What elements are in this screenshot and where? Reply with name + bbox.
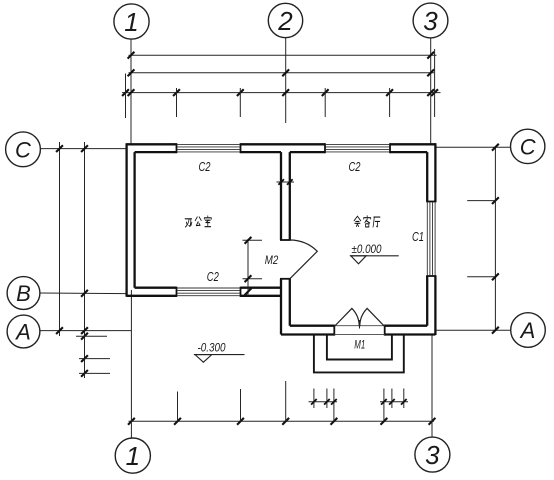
- wall interior thickness dimension: [277, 179, 295, 185]
- wall right outer line: [434, 143, 436, 335]
- label C1: [412, 230, 424, 244]
- grid circle C right: [511, 129, 545, 163]
- top extension line window edge d: [389, 88, 391, 117]
- grid line B left: [40, 292, 127, 295]
- door M1 jamb caps: [334, 325, 384, 336]
- left stub step1: [79, 358, 110, 360]
- wall top window caps: [177, 143, 391, 153]
- porch inner step: [327, 335, 392, 360]
- room label office (ban gong shi): [185, 216, 211, 227]
- left stub step2: [79, 372, 110, 374]
- top extension line left wall face: [125, 74, 127, 119]
- grid line 3 upper leader: [430, 38, 432, 144]
- elevation marker +0.000: [350, 244, 399, 264]
- grid line A left: [40, 330, 131, 332]
- label M1: [354, 337, 365, 351]
- grid circle B left: [7, 277, 40, 310]
- wall bottom-left outer line: [127, 295, 281, 297]
- top dimension line grids: [128, 69, 435, 76]
- grid circle 2 top: [268, 3, 302, 37]
- svg-text:3: 3: [423, 6, 438, 36]
- grid line 3 lower leader: [431, 335, 433, 437]
- svg-text:A: A: [519, 318, 536, 343]
- bottom extension grid 2: [285, 381, 287, 421]
- svg-text:2: 2: [277, 6, 293, 36]
- window C1 hatch: [427, 202, 435, 276]
- grid circle A right: [511, 313, 546, 348]
- window C2 top left hatch: [177, 144, 240, 152]
- svg-text:C2: C2: [199, 160, 211, 174]
- svg-text:1: 1: [124, 7, 138, 37]
- door M2 dimension line: [243, 237, 263, 295]
- wall interior left line: [280, 152, 282, 334]
- door M2 jamb caps: [280, 240, 291, 279]
- grid circle 3 bottom: [415, 437, 450, 472]
- window C2 top right hatch: [326, 144, 390, 152]
- door M2 leaf and swing: [290, 240, 318, 279]
- left dimension line outer: [56, 142, 63, 336]
- grid line 1 upper leader: [130, 39, 132, 143]
- wall right inner line: [426, 152, 428, 326]
- wall interior right line: [289, 152, 291, 326]
- svg-text:C: C: [520, 134, 536, 159]
- svg-text:3: 3: [425, 440, 440, 470]
- label M2: [265, 253, 279, 267]
- svg-text:A: A: [14, 320, 31, 345]
- label C2 bottom: [207, 270, 219, 284]
- wall bottom-left window caps: [177, 287, 241, 297]
- svg-text:C2: C2: [207, 270, 219, 284]
- bottom extension window edge a: [177, 392, 179, 422]
- elevation marker -0.300: [194, 343, 245, 363]
- door M1 left leaf: [334, 308, 359, 326]
- grid circle 1 bottom: [115, 438, 150, 473]
- svg-text:1: 1: [126, 441, 140, 471]
- top dimension line overall: [128, 52, 437, 59]
- grid line A right: [436, 329, 511, 331]
- top extension line window edge a: [176, 88, 178, 117]
- wall left outer line: [125, 143, 127, 297]
- svg-text:C: C: [15, 137, 31, 162]
- left stub wall face: [76, 335, 107, 337]
- right dimension line: [492, 144, 499, 334]
- svg-text:C1: C1: [412, 230, 424, 244]
- grid line C left: [40, 148, 126, 150]
- wall bottom-left inner line: [135, 287, 281, 289]
- top dimension line openings: [122, 89, 441, 96]
- porch outer step: [314, 335, 404, 373]
- step dimension group right: [380, 389, 408, 422]
- svg-text:C2: C2: [349, 160, 361, 174]
- svg-text:-0.300: -0.300: [198, 343, 227, 355]
- door M1 threshold: [334, 325, 384, 327]
- svg-text:±0.000: ±0.000: [352, 244, 383, 256]
- svg-text:M1: M1: [354, 337, 365, 351]
- wall top outer line: [127, 143, 436, 145]
- svg-text:B: B: [16, 281, 31, 306]
- step dimension group left: [309, 389, 338, 422]
- grid line 2 leader: [285, 38, 287, 123]
- wall right window caps: [426, 202, 436, 277]
- right stub window top: [467, 200, 495, 202]
- grid circle C left: [6, 132, 41, 167]
- left dimension line inner: [81, 142, 88, 378]
- grid line C right: [435, 146, 511, 148]
- top extension line window edge b: [239, 88, 241, 117]
- svg-text:M2: M2: [265, 253, 279, 267]
- wall bottom-right inner line: [290, 325, 427, 327]
- wall top inner line: [135, 151, 428, 153]
- grid circle 3 top: [413, 3, 448, 38]
- door M1 right leaf: [360, 308, 385, 326]
- wall bottom-right outer line: [281, 333, 435, 335]
- label C2 top right: [349, 160, 361, 174]
- right stub window bottom: [467, 276, 495, 278]
- grid line 1 lower leader: [130, 290, 132, 438]
- bottom dimension line: [128, 418, 435, 425]
- label C2 top left: [199, 160, 211, 174]
- window C2 bottom hatch: [177, 288, 240, 296]
- door M1 center stub: [359, 320, 361, 329]
- top extension line right wall face: [434, 49, 436, 117]
- grid circle A left: [7, 315, 40, 348]
- grid circle 1 top: [114, 4, 149, 39]
- wall left inner line: [133, 152, 135, 288]
- room label reception (hui ke ting): [354, 216, 380, 227]
- top extension line window edge c: [324, 88, 326, 117]
- bottom extension window edge b: [240, 389, 242, 421]
- door M1 outer threshold: [334, 334, 384, 336]
